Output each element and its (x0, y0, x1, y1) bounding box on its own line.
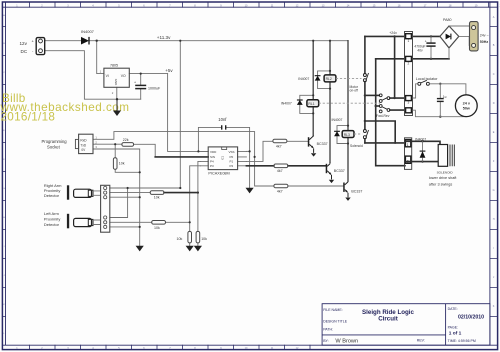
svg-text:VO: VO (121, 74, 126, 78)
svg-text:lower drive shaft: lower drive shaft (429, 176, 458, 180)
svg-text:10k: 10k (201, 237, 207, 241)
svg-text:PAGE:: PAGE: (448, 325, 458, 329)
resistor R1 22k (122, 143, 134, 147)
connector J4 solenoid (405, 138, 412, 170)
svg-text:SIN: SIN (210, 155, 215, 159)
svg-text:50w: 50w (463, 107, 470, 111)
wire +24 drop to pin3 (394, 36, 396, 98)
solenoid L1 (438, 145, 454, 167)
contact S2 fwd-rev pole1 (379, 94, 390, 103)
wire regulator input (97, 41, 104, 74)
wire RL2 diode loop (318, 71, 330, 89)
bridge rectifier BR1 PA80 (440, 26, 459, 48)
resistor R3 10k (150, 191, 164, 195)
svg-text:12v: 12v (20, 41, 28, 46)
wire solenoid top (405, 141, 440, 144)
ground (0v bus) (137, 246, 143, 250)
diode D5 1N4007 (solenoid) (415, 138, 426, 162)
svg-text:P0: P0 (230, 155, 234, 159)
svg-text:P3: P3 (210, 164, 214, 168)
TITLE BLOCK (322, 304, 490, 346)
svg-text:10k: 10k (119, 161, 125, 165)
svg-text:+11.3v: +11.3v (157, 35, 171, 40)
dashed link RL1 (319, 102, 380, 104)
watermark (0, 92, 130, 123)
svg-text:G: G (3, 188, 5, 190)
wire sensor2 0v (110, 226, 140, 228)
wire 4k7a to Q1 (287, 140, 308, 142)
chip pin stubs (201, 151, 247, 165)
svg-text:4k7: 4k7 (276, 145, 282, 149)
contact S2 fwd-rev pole2 (379, 105, 390, 113)
svg-text:RL2: RL2 (326, 77, 332, 81)
svg-text:+: + (425, 39, 427, 43)
svg-text:BC337: BC337 (351, 189, 362, 193)
dashed link RL2 (336, 77, 362, 79)
connector J3 24vac (470, 22, 479, 51)
svg-text:after 3 swings: after 3 swings (429, 182, 453, 186)
wire regulator gnd (116, 87, 118, 99)
wire RL3 diode loop (337, 126, 348, 144)
svg-text:7805: 7805 (110, 64, 118, 68)
motor M1 24v 50w (455, 95, 477, 117)
svg-text:PICAXE08M: PICAXE08M (208, 171, 229, 175)
wire 10k serial stems (115, 144, 140, 172)
transistor Q3 BC337 (343, 181, 351, 201)
wire VSS junction (246, 150, 249, 152)
svg-text:2016/1/18: 2016/1/18 (1, 110, 56, 123)
svg-text:10k: 10k (177, 237, 183, 241)
wire +5v down to VDD (168, 74, 209, 152)
resistor R8 4k7 (274, 164, 288, 168)
wire sensor2 V+ link (110, 188, 128, 218)
svg-text:10k: 10k (154, 196, 160, 200)
svg-text:1: 1 (408, 39, 410, 43)
svg-text:SOLENOID: SOLENOID (437, 171, 454, 175)
wire +24 rail (365, 35, 440, 37)
svg-text:VDD: VDD (210, 150, 217, 154)
svg-text:RL3: RL3 (344, 133, 350, 137)
wire 10nF left (198, 127, 221, 151)
svg-text:FILE NAME:: FILE NAME: (323, 308, 342, 312)
programming socket J2 (75, 134, 93, 153)
wire solenoid bottom (405, 161, 438, 163)
svg-text:+: + (134, 81, 136, 85)
svg-text:VI: VI (106, 74, 109, 78)
svg-text:Fwd-Rev: Fwd-Rev (376, 114, 390, 118)
svg-text:2: 2 (408, 62, 410, 66)
connector J1 12v DC (36, 38, 45, 55)
wire RL2 coil feed (329, 41, 331, 163)
svg-text:BC337: BC337 (317, 142, 328, 146)
svg-text:Solenoid: Solenoid (350, 144, 363, 148)
svg-text:Local isolator: Local isolator (416, 77, 438, 81)
svg-text:IN4007: IN4007 (298, 77, 309, 81)
wire P0 down to 4k7c (255, 157, 274, 186)
svg-text:4k7: 4k7 (277, 169, 283, 173)
contact S3 solenoid (363, 130, 368, 139)
svg-text:TxD: TxD (80, 143, 87, 147)
wire 0v drop pole2 solenoid (376, 59, 405, 166)
wire throw2 to pin4 (390, 109, 405, 111)
wire bridge dc minus (448, 48, 450, 59)
svg-text:+5v: +5v (165, 68, 173, 73)
wire P4 pulldown chain (198, 161, 201, 246)
wire RL2 contact feed (364, 36, 366, 73)
svg-text:DC: DC (21, 49, 28, 54)
svg-text:4k7: 4k7 (277, 190, 283, 194)
contact S1 motor on/off (363, 73, 368, 82)
svg-text:Circuit: Circuit (378, 315, 398, 322)
svg-text:IN4007: IN4007 (332, 118, 343, 122)
wire sensor2 out to 10k (110, 221, 190, 223)
svg-text:TIME: 4:59:56 PM: TIME: 4:59:56 PM (448, 339, 476, 343)
svg-text:BC337: BC337 (334, 169, 345, 173)
wire motor bottom rail (413, 110, 466, 117)
capacitor C4 1u (437, 84, 444, 117)
svg-text:DESIGN TITLE: DESIGN TITLE (323, 319, 348, 323)
wire socket 0V bus (93, 149, 140, 246)
svg-text:10nf: 10nf (218, 117, 227, 122)
wire RL1 diode loop (300, 95, 313, 113)
svg-text:Detector: Detector (44, 222, 60, 227)
resistor R9 4k7 (274, 184, 288, 188)
transistor Q1 BC337 (308, 136, 317, 157)
svg-text:22k: 22k (123, 138, 129, 142)
svg-text:P1: P1 (230, 160, 234, 164)
svg-text:+24v: +24v (389, 31, 397, 35)
svg-text:J: J (3, 275, 4, 277)
svg-text:02/10/2010: 02/10/2010 (458, 315, 484, 321)
wire 1000uF stems (140, 74, 142, 100)
svg-text:P2: P2 (230, 164, 234, 168)
terminal block TB1 (101, 185, 110, 232)
regulator U1 7805 (104, 68, 129, 87)
svg-text:Proximity: Proximity (44, 216, 60, 221)
svg-text:C: C (493, 73, 495, 76)
svg-text:1000uF: 1000uF (148, 86, 161, 90)
diode D1 1N4007 (81, 29, 95, 45)
svg-text:3: 3 (408, 101, 410, 105)
resistor R7 4k7 (273, 139, 287, 143)
wire RL2 contact out down (364, 82, 366, 130)
svg-text:IN4007: IN4007 (81, 29, 95, 34)
wire 12v+ to diode (45, 40, 81, 42)
svg-text:H: H (493, 218, 495, 221)
diode D2 1N4007 (RL1) (281, 100, 303, 105)
wire bottom link (365, 121, 395, 143)
svg-text:40v: 40v (417, 49, 423, 53)
wire motor pole1 (365, 94, 379, 96)
diode D4 1N4007 (RL3) (332, 118, 343, 136)
wire bridge AC top (449, 26, 472, 28)
svg-text:1u: 1u (443, 95, 447, 99)
wire P2 thick to 4k7b and Q2 (246, 165, 325, 167)
border tick marks bottom (30, 345, 311, 349)
svg-text:24v ~: 24v ~ (480, 33, 489, 37)
wire sensor1 out to 10k (110, 192, 150, 194)
border tick marks left (2, 27, 5, 317)
dashed link RL3 (354, 133, 362, 135)
svg-text:50Hz: 50Hz (480, 40, 489, 44)
wire sensor1 out thick to P4 (164, 192, 198, 194)
wire 22k to serial bend (134, 144, 156, 157)
IC U2 PICAXE08M (208, 147, 237, 170)
ground (R6) (195, 246, 201, 250)
resistor R5 10k pulldown (188, 231, 192, 243)
wire serial-in thick (155, 156, 208, 158)
relay RL1 coil (307, 100, 319, 107)
svg-text:Detector: Detector (44, 193, 60, 198)
wire bridge AC right (459, 36, 472, 45)
svg-text:VSS: VSS (229, 150, 235, 154)
ground (R5) (187, 246, 193, 250)
ground (regulator) (114, 99, 120, 115)
svg-text:1: 1 (407, 143, 409, 147)
border tick marks right (490, 27, 498, 317)
diode D3 1N4007 (RL2) (298, 76, 320, 81)
wire isolator to motor (429, 84, 466, 95)
svg-text:P4: P4 (210, 160, 214, 164)
relay RL2 coil (324, 75, 336, 82)
ground (VSS) (247, 188, 253, 192)
svg-text:1 of 1: 1 of 1 (449, 330, 462, 336)
wire 12v- down to 0v run (45, 51, 141, 99)
wire pole2 stub (376, 105, 380, 107)
thick wires (155, 36, 449, 192)
svg-text:RxD: RxD (80, 138, 87, 142)
svg-text:Programming: Programming (42, 139, 68, 144)
svg-text:D: D (493, 102, 495, 105)
capacitor C3 4700uF (426, 36, 435, 58)
svg-text:DATE:: DATE: (448, 307, 458, 311)
wire socket RxD run (93, 132, 255, 157)
wire sensor1 V+ (110, 187, 181, 189)
switch S4 local isolator (418, 80, 430, 85)
svg-text:REV:: REV: (417, 338, 425, 342)
svg-text:PA80: PA80 (443, 18, 452, 22)
transistor Q2 BC337 (326, 162, 335, 183)
svg-text:10k: 10k (154, 226, 160, 230)
resistor R6 10k pulldown (196, 231, 200, 243)
wire RL3 contact out down (364, 139, 366, 143)
wire +11.3v rail (89, 40, 348, 42)
wire 4k7c to Q3 (288, 185, 343, 187)
terminal strip TB2 (405, 32, 413, 116)
wire P3 pulldown chain (190, 166, 201, 247)
svg-text:on-off: on-off (350, 89, 358, 93)
wire 0v rail right (376, 58, 449, 60)
wire RL3 coil feed (347, 41, 349, 181)
svg-text:GND: GND (114, 79, 118, 85)
svg-text:PATH:: PATH: (323, 328, 333, 332)
wire +11.3v down to sensors (179, 41, 181, 188)
svg-text:IN4007: IN4007 (415, 138, 426, 142)
wire socket TxD to 22k (93, 143, 122, 145)
svg-text:G: G (493, 189, 495, 192)
wire sensor1 0v (110, 196, 140, 198)
wire solenoid feed (365, 142, 405, 144)
capacitor C2 10nf (222, 125, 226, 129)
wire regulator output +5v (129, 73, 167, 75)
wire RL1 coil feed (312, 41, 314, 136)
svg-text:IN4007: IN4007 (281, 101, 292, 105)
svg-text:W Brown: W Brown (335, 338, 358, 344)
svg-text:BY:: BY: (323, 339, 328, 343)
border tick marks top (30, 2, 489, 7)
resistor R2 10k (serial) (113, 158, 117, 170)
svg-text:RL1: RL1 (308, 102, 314, 106)
svg-text:Socket: Socket (47, 145, 61, 150)
resistor R4 10k (152, 221, 166, 225)
wire P1 up to 4k7a (246, 141, 273, 161)
wire throw1 to pin3 (390, 97, 405, 99)
capacitor C1 1000uF (135, 85, 146, 88)
svg-text:24 v: 24 v (463, 102, 471, 106)
svg-text:IC1: IC1 (220, 155, 224, 160)
wire pin3 to isolator (413, 84, 418, 98)
wire 10nF right to VSS (226, 127, 250, 188)
relay RL3 coil (342, 131, 354, 138)
